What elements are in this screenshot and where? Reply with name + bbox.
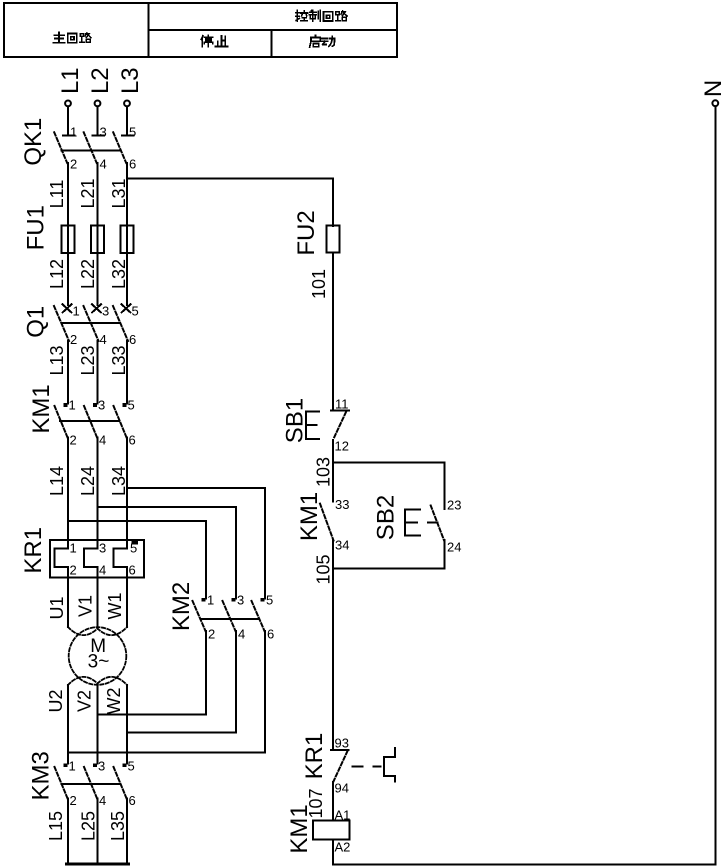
- switch QK1 pole 1: [54, 132, 74, 163]
- svg-text:12: 12: [335, 439, 349, 454]
- svg-text:94: 94: [335, 781, 349, 796]
- svg-text:5: 5: [266, 593, 273, 608]
- breaker Q1 pole 2: [84, 304, 102, 341]
- svg-text:L15: L15: [46, 811, 66, 841]
- wire L13: [67, 341, 69, 404]
- svg-text:103: 103: [314, 457, 334, 487]
- svg-text:1: 1: [73, 304, 80, 319]
- svg-text:FU1: FU1: [23, 205, 50, 250]
- switch QK1 pole 3: [113, 132, 133, 163]
- svg-text:33: 33: [335, 497, 349, 512]
- svg-text:1: 1: [70, 541, 77, 556]
- wire L23: [97, 341, 99, 404]
- svg-text:U1: U1: [47, 596, 67, 619]
- wire L14 branch to KM2 pin 1: [68, 521, 206, 599]
- svg-text:23: 23: [447, 498, 461, 513]
- svg-text:93: 93: [335, 736, 349, 751]
- svg-text:5: 5: [129, 125, 136, 140]
- svg-text:2: 2: [70, 433, 77, 448]
- wire L35: [126, 798, 128, 863]
- motor M1 top terminal arcs: [68, 627, 127, 635]
- fuse FU2: [327, 226, 340, 253]
- wire L34 branch to KM2 pin 5: [127, 488, 265, 599]
- svg-text:4: 4: [238, 627, 245, 642]
- svg-text:105: 105: [314, 554, 334, 584]
- svg-text:L1: L1: [57, 67, 84, 94]
- wire A2 to N: [333, 840, 715, 865]
- table text 主回路: [53, 32, 91, 42]
- motor M1 bottom terminal arcs: [68, 677, 127, 685]
- fuse FU1 pole 1: [62, 226, 75, 254]
- thermal relay KR1 box: [50, 540, 144, 577]
- thermal relay KR1 heater 2: [84, 549, 98, 568]
- svg-text:SB1: SB1: [282, 398, 309, 443]
- svg-text:KM2: KM2: [168, 582, 195, 631]
- svg-text:3: 3: [99, 541, 106, 556]
- table text 停止: [201, 35, 227, 46]
- svg-text:6: 6: [129, 563, 136, 578]
- svg-text:W2: W2: [104, 688, 124, 715]
- wire phase A upper: [67, 163, 69, 305]
- wire U1: [67, 567, 69, 627]
- svg-text:L14: L14: [47, 466, 67, 496]
- fuse FU1 pole 2: [91, 226, 104, 254]
- svg-text:KM3: KM3: [28, 751, 55, 800]
- svg-text:3: 3: [98, 759, 105, 774]
- contactor KM1 linkage bar: [60, 420, 119, 422]
- svg-text:KR1: KR1: [20, 527, 47, 574]
- contactor KM2 pole 1: [193, 598, 206, 631]
- svg-text:KM1: KM1: [28, 384, 55, 433]
- breaker Q1 linkage bar: [62, 322, 120, 324]
- svg-text:W1: W1: [105, 593, 125, 620]
- contactor KM2 pole 2: [223, 598, 236, 631]
- svg-text:L3: L3: [117, 67, 144, 94]
- wire 105: [332, 569, 334, 751]
- svg-text:6: 6: [267, 627, 274, 642]
- wire phase B upper: [97, 163, 99, 305]
- contactor KM3 pole 3: [114, 763, 127, 798]
- svg-text:L23: L23: [78, 345, 98, 375]
- wire L14: [67, 437, 69, 548]
- node 103 branch: [333, 463, 445, 510]
- contactor KM1 pole 2: [84, 403, 97, 437]
- svg-text:34: 34: [335, 538, 349, 553]
- wire W1: [126, 567, 128, 627]
- svg-text:L13: L13: [47, 345, 67, 375]
- svg-text:L22: L22: [78, 259, 98, 289]
- svg-text:1: 1: [70, 125, 77, 140]
- wire phase C upper: [126, 163, 128, 305]
- svg-text:6: 6: [129, 332, 136, 347]
- svg-text:2: 2: [70, 157, 77, 172]
- node N terminal: [712, 100, 718, 864]
- pushbutton SB2 contact: [431, 506, 444, 541]
- svg-text:Q1: Q1: [23, 306, 50, 338]
- thermal relay KR1 corner mark: [132, 540, 139, 545]
- wire 33-34 lower: [332, 541, 334, 569]
- pushbutton SB1 contact: [331, 410, 349, 439]
- svg-text:3: 3: [237, 593, 244, 608]
- svg-text:L25: L25: [79, 811, 99, 841]
- contactor KM3 pole 2: [84, 763, 97, 798]
- wire 101: [332, 253, 334, 411]
- svg-text:L21: L21: [78, 178, 98, 208]
- pushbutton SB2 actuator: [405, 510, 420, 536]
- svg-text:FU2: FU2: [293, 210, 320, 255]
- wire L24: [97, 437, 99, 548]
- coil KM1: [313, 821, 350, 840]
- svg-text:V2: V2: [75, 690, 95, 712]
- svg-text:L32: L32: [109, 259, 129, 289]
- wire SB2 lower: [444, 540, 446, 568]
- contactor KM2 pole 3: [252, 598, 265, 631]
- wire U2: [67, 685, 69, 764]
- contactor KM1 pole 3: [114, 403, 127, 437]
- svg-text:1: 1: [69, 398, 76, 413]
- breaker Q1 pole 1: [54, 304, 72, 341]
- svg-text:3~: 3~: [88, 652, 110, 673]
- wire V2: [97, 684, 99, 764]
- switch QK1 pole 2: [84, 132, 104, 163]
- wire W2: [126, 685, 128, 764]
- table frame: [4, 3, 397, 57]
- svg-text:QK1: QK1: [20, 118, 47, 166]
- svg-text:6: 6: [129, 433, 136, 448]
- svg-text:V1: V1: [76, 595, 96, 617]
- svg-text:6: 6: [129, 157, 136, 172]
- svg-text:U2: U2: [46, 689, 66, 712]
- switch QK1 linkage bar: [62, 149, 120, 151]
- svg-text:L24: L24: [78, 466, 98, 496]
- svg-text:11: 11: [335, 397, 349, 412]
- svg-text:2: 2: [70, 332, 77, 347]
- thermal relay KR1 heater 3: [114, 549, 128, 568]
- wire 103: [332, 440, 334, 502]
- wire L24 branch to KM2 pin 3: [98, 507, 237, 599]
- wire L25: [97, 798, 99, 863]
- svg-text:6: 6: [129, 793, 136, 808]
- contactor KM3 linkage bar: [62, 783, 120, 785]
- svg-text:L33: L33: [109, 345, 129, 375]
- svg-text:1: 1: [207, 593, 214, 608]
- svg-text:L31: L31: [109, 178, 129, 208]
- svg-text:5: 5: [128, 759, 135, 774]
- node 105 join: [333, 568, 445, 570]
- thermal relay KR1 heater 1: [55, 549, 69, 568]
- wire V2 to KM2 pin 2: [98, 631, 207, 715]
- table text 控制回路: [296, 10, 347, 21]
- node L2 terminal: [95, 101, 101, 136]
- svg-text:L11: L11: [47, 180, 67, 209]
- wire L15: [67, 798, 69, 863]
- contactor KM2 linkage bar: [201, 618, 260, 620]
- contactor KM3 pole 1: [55, 763, 68, 798]
- contact KR1 trip linkage dashes: [353, 766, 381, 768]
- svg-text:2: 2: [208, 627, 215, 642]
- svg-text:4: 4: [100, 157, 107, 172]
- svg-text:A2: A2: [335, 840, 351, 855]
- pushbutton SB1 actuator: [306, 412, 319, 439]
- svg-text:4: 4: [100, 332, 107, 347]
- node L1 terminal: [65, 101, 71, 136]
- svg-text:4: 4: [99, 433, 106, 448]
- svg-text:24: 24: [447, 540, 461, 555]
- svg-text:4: 4: [99, 563, 106, 578]
- contact KR1 NC: [331, 750, 349, 782]
- svg-text:5: 5: [128, 398, 135, 413]
- svg-text:2: 2: [70, 793, 77, 808]
- svg-text:1: 1: [69, 759, 76, 774]
- svg-text:3: 3: [98, 398, 105, 413]
- svg-text:L35: L35: [108, 811, 128, 841]
- wire L34: [126, 437, 128, 548]
- svg-text:2: 2: [70, 563, 77, 578]
- svg-text:3: 3: [100, 125, 107, 140]
- svg-text:L12: L12: [47, 259, 67, 289]
- wire W2 to KM2 pin 4: [127, 631, 236, 733]
- contact KM1 aux: [320, 504, 334, 541]
- svg-text:KM1: KM1: [286, 804, 313, 853]
- svg-text:KR1: KR1: [301, 733, 328, 780]
- star point bus bar: [67, 863, 129, 866]
- svg-text:3: 3: [102, 304, 109, 319]
- fuse FU1 pole 3: [121, 226, 134, 254]
- svg-text:5: 5: [132, 304, 139, 319]
- svg-text:L2: L2: [87, 67, 114, 94]
- svg-text:SB2: SB2: [373, 495, 400, 540]
- svg-text:L34: L34: [109, 466, 129, 496]
- motor M1 circle: [69, 627, 127, 685]
- wire U2 to KM2 pin 6: [68, 631, 265, 753]
- wire V1: [97, 567, 99, 628]
- wire control feed from L31: [127, 179, 333, 226]
- wire L33: [126, 341, 128, 404]
- svg-text:101: 101: [309, 269, 329, 299]
- svg-text:N: N: [700, 80, 722, 97]
- svg-text:4: 4: [99, 793, 106, 808]
- breaker Q1 pole 3: [113, 304, 131, 341]
- svg-text:KM1: KM1: [296, 492, 323, 541]
- node L3 terminal: [124, 101, 130, 136]
- contact KR1 trip symbol: [384, 748, 395, 782]
- table text 启动: [310, 35, 335, 47]
- contactor KM1 pole 1: [55, 403, 68, 437]
- wire 107: [332, 782, 334, 821]
- pushbutton SB2 link dash: [428, 521, 438, 523]
